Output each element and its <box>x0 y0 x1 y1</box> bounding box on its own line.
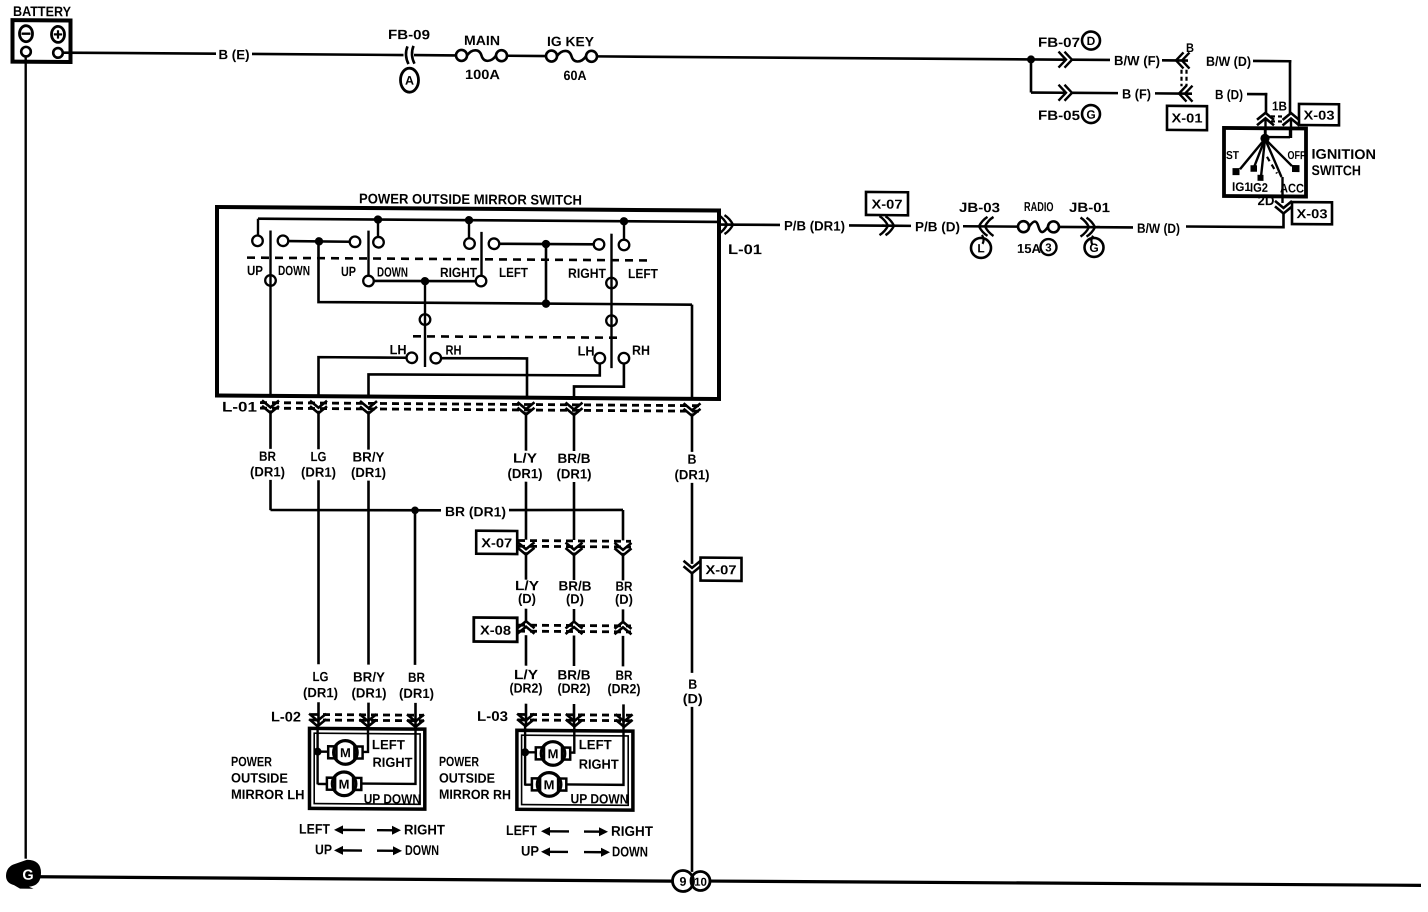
contact pair wire B <box>489 238 500 249</box>
node junction top <box>1027 55 1035 63</box>
label box X-03 bottom <box>1292 202 1332 224</box>
wire ground bus right <box>710 880 1421 886</box>
connector ref circle A <box>401 68 419 92</box>
selector contact RH2 <box>619 353 630 364</box>
wire 2D down and left B/W(D) <box>1186 213 1284 227</box>
wire BR/Y to L-02 <box>367 703 370 727</box>
svg-text:(DR1): (DR1) <box>508 466 543 481</box>
svg-text:LEFT: LEFT <box>579 737 613 752</box>
svg-text:(DR1): (DR1) <box>351 465 386 480</box>
svg-text:UP: UP <box>247 263 263 278</box>
wire BR vertical to branch <box>269 480 272 510</box>
contact stem 4 <box>623 221 625 239</box>
node bus dot 2 <box>465 216 473 224</box>
contact stem UP1 <box>257 219 259 236</box>
svg-text:BR: BR <box>408 670 425 685</box>
svg-text:X-07: X-07 <box>872 196 903 211</box>
wire LG down <box>317 480 320 664</box>
wire radio fuse to JB-01 <box>1059 226 1100 229</box>
svg-text:60A: 60A <box>564 68 587 83</box>
connector X-07 pin BR/B <box>566 548 583 555</box>
svg-text:(D): (D) <box>566 591 584 606</box>
power outside mirror switch box <box>217 207 719 399</box>
svg-text:UP: UP <box>315 841 332 857</box>
node selector tap dot <box>421 277 429 285</box>
svg-text:POWER: POWER <box>439 754 479 769</box>
wire BR below X-07 <box>622 553 625 581</box>
selector contact LH1 <box>407 352 418 363</box>
svg-text:B: B <box>1186 41 1194 55</box>
wire L/Y below X-07 <box>525 552 528 580</box>
svg-text:(D): (D) <box>518 591 536 606</box>
node ground joint 9 <box>673 870 694 891</box>
wire IG KEY to junction <box>597 56 1031 59</box>
svg-text:LEFT: LEFT <box>499 265 529 280</box>
connector X-07 pin BR <box>615 548 632 555</box>
wire BR/B to L-03 <box>573 704 576 726</box>
svg-text:L-01: L-01 <box>222 398 257 414</box>
svg-text:DOWN: DOWN <box>405 842 439 858</box>
svg-text:UP: UP <box>341 264 356 279</box>
svg-text:G: G <box>1086 108 1095 122</box>
ignition switch contact IG2 <box>1261 139 1265 177</box>
svg-text:RIGHT: RIGHT <box>373 755 414 770</box>
svg-text:G: G <box>22 868 33 884</box>
svg-text:B: B <box>688 677 697 692</box>
wire L/Y mid <box>525 482 528 540</box>
wire L/Y to motor1 RH <box>525 751 536 753</box>
wire L/Y to X-08 <box>525 609 528 621</box>
wire B(D) to corner <box>1247 93 1267 96</box>
power outside mirror LH box <box>310 728 425 809</box>
wire L/Y to L-03 <box>525 704 528 726</box>
wire battery negative to ground bus <box>25 57 27 859</box>
wire MAIN to IG KEY fuse <box>507 54 546 57</box>
svg-text:RIGHT: RIGHT <box>568 266 607 281</box>
node ground joint 10 <box>691 871 710 890</box>
wire B drop <box>691 413 694 452</box>
power outside mirror RH box <box>517 730 633 810</box>
svg-text:(DR2): (DR2) <box>608 681 641 696</box>
svg-text:(DR1): (DR1) <box>250 464 285 479</box>
svg-text:DOWN: DOWN <box>612 843 648 859</box>
svg-text:OFF: OFF <box>1288 150 1306 162</box>
svg-text:(DR1): (DR1) <box>303 685 338 700</box>
wire BR to L-02 <box>414 703 417 727</box>
svg-text:ST: ST <box>1226 150 1239 162</box>
motor RH left/right <box>536 747 544 759</box>
svg-text:IG KEY: IG KEY <box>547 34 594 49</box>
svg-text:MAIN: MAIN <box>464 33 500 48</box>
label box X-01 <box>1167 106 1207 130</box>
wire BR/Y into motor1 LH <box>363 725 369 752</box>
wire BR below X-08 <box>622 636 625 667</box>
wire FB-05 to B(F) <box>1072 92 1118 95</box>
wire BR into motor2 RH <box>566 724 623 785</box>
svg-text:A: A <box>405 74 414 88</box>
wire LG to motor2 LH <box>318 783 327 785</box>
svg-text:RH: RH <box>446 343 462 358</box>
wire BR drop <box>269 410 272 449</box>
wire LG to motor1 LH <box>318 750 329 752</box>
connector L-02 pin LG <box>309 719 326 726</box>
svg-text:POWER OUTSIDE MIRROR SWITCH: POWER OUTSIDE MIRROR SWITCH <box>359 190 582 208</box>
wire B below X-07 <box>691 572 694 673</box>
wire BR branch down RH <box>622 510 625 540</box>
connector L-03 pin L/Y <box>517 719 534 726</box>
svg-text:M: M <box>339 777 350 792</box>
wire crossbar down right <box>691 305 694 399</box>
svg-text:D: D <box>1087 34 1096 48</box>
wire L-01 out to label <box>737 223 780 226</box>
connector X-07 row <box>476 531 517 554</box>
node contact wire B dot <box>542 240 550 248</box>
wire junction to FB-05 <box>1031 91 1065 94</box>
svg-text:BR/B: BR/B <box>558 451 591 466</box>
svg-text:(DR2): (DR2) <box>558 681 591 696</box>
connector L-01 pin B <box>684 409 701 416</box>
wire B to ground joints <box>691 707 694 872</box>
svg-text:B/W (F): B/W (F) <box>1114 53 1160 68</box>
svg-text:UP DOWN: UP DOWN <box>364 791 421 806</box>
connector X-08 pin BR/B <box>566 621 583 628</box>
label box X-03 top <box>1299 104 1339 125</box>
svg-text:LH: LH <box>578 344 595 359</box>
svg-text:L-01: L-01 <box>728 241 762 257</box>
svg-text:B (F): B (F) <box>1122 86 1151 101</box>
contact stem 3 <box>468 220 470 238</box>
svg-text:P/B (DR1): P/B (DR1) <box>784 218 845 233</box>
connector X-07 inline <box>866 192 908 215</box>
wire BR branch down LH <box>414 510 417 665</box>
svg-text:M: M <box>548 746 559 761</box>
svg-text:LEFT: LEFT <box>628 266 659 281</box>
wire B(F) to X-01 connector <box>1155 92 1192 95</box>
svg-text:IG1: IG1 <box>1232 180 1251 194</box>
svg-text:B: B <box>688 452 697 467</box>
svg-text:(DR1): (DR1) <box>675 467 710 482</box>
wire BR/Y drop <box>367 411 370 450</box>
ignition switch contact IG1 <box>1254 139 1265 168</box>
svg-text:B (D): B (D) <box>1215 87 1243 102</box>
connector X-08 pin L/Y <box>518 621 535 628</box>
svg-text:15A: 15A <box>1017 241 1042 256</box>
contact pair wire A <box>278 235 289 246</box>
svg-text:RADIO: RADIO <box>1024 199 1054 214</box>
node LG tap dot LH <box>314 748 322 756</box>
svg-text:B/W (D): B/W (D) <box>1206 54 1251 69</box>
wire LH1 left down <box>319 357 407 397</box>
wire BR/B drop <box>573 413 576 452</box>
wire X-07 to P/B(D) <box>882 224 911 227</box>
wire RH1 right down <box>441 358 527 398</box>
wire JB-03 to radio fuse <box>963 225 1018 228</box>
svg-text:2D: 2D <box>1258 193 1275 208</box>
svg-text:(DR1): (DR1) <box>557 466 592 481</box>
wire internal crossbar <box>319 241 693 304</box>
svg-text:OUTSIDE: OUTSIDE <box>231 770 288 785</box>
svg-text:B/W (D): B/W (D) <box>1137 221 1180 236</box>
svg-text:L-03: L-03 <box>477 708 508 724</box>
wire BR/B mid <box>573 482 576 540</box>
svg-text:BR/Y: BR/Y <box>353 669 385 684</box>
wire BR to X-08 <box>622 609 625 621</box>
mech link dashed row 1 <box>247 258 652 261</box>
svg-text:BR (DR1): BR (DR1) <box>445 504 506 519</box>
connector L-02 pin BR <box>407 720 424 727</box>
wire junction to FB-07 <box>1031 58 1065 61</box>
svg-text:M: M <box>544 777 555 792</box>
connector X-01 inline <box>1179 86 1187 102</box>
wire 1B pins into ignition switch <box>1264 120 1266 138</box>
svg-text:LG: LG <box>313 669 329 684</box>
svg-text:X-03: X-03 <box>1304 108 1335 123</box>
wire L/Y inside RH box <box>524 724 526 786</box>
wire BR into motor2 LH <box>362 725 415 784</box>
wire battery positive B(E) segment 1 <box>63 53 216 54</box>
svg-text:MIRROR LH: MIRROR LH <box>231 787 305 803</box>
svg-text:L/Y: L/Y <box>513 451 537 466</box>
mech link dashed row 2 <box>413 336 622 337</box>
ground G symbol <box>6 860 41 889</box>
switch pole UP/DOWN right <box>367 231 369 276</box>
svg-text:3: 3 <box>1045 242 1051 254</box>
contact stem 2 <box>377 220 379 237</box>
switch bus wire <box>258 219 719 222</box>
wire FB-07 to B/W(F) <box>1072 58 1110 61</box>
svg-text:SWITCH: SWITCH <box>1312 162 1362 178</box>
wire BR/B into motor1 RH <box>570 724 574 753</box>
svg-text:10: 10 <box>694 877 707 889</box>
svg-text:RIGHT: RIGHT <box>440 265 478 280</box>
wire L/Y below X-08 <box>525 635 528 666</box>
selector contact RH1 <box>431 353 442 364</box>
svg-text:FB-09: FB-09 <box>388 27 430 42</box>
connector X-07 pin B <box>684 566 701 573</box>
ignition switch contact OFF <box>1265 139 1292 166</box>
connector L-03 pin BR <box>616 720 633 727</box>
wire L/Y drop <box>525 412 528 451</box>
wire LG drop <box>317 411 320 450</box>
wire contactB tap down <box>545 244 548 304</box>
connector L-01 pin BR <box>262 406 279 413</box>
svg-text:RIGHT: RIGHT <box>611 823 653 839</box>
motor LH left/right <box>328 746 336 758</box>
svg-text:FB-07: FB-07 <box>1038 35 1080 50</box>
svg-text:BR/Y: BR/Y <box>353 449 385 464</box>
wire FB-09 to MAIN fuse <box>414 54 456 57</box>
switch pole RIGHT/LEFT left <box>480 232 482 276</box>
svg-text:DOWN: DOWN <box>278 263 310 278</box>
svg-text:(D): (D) <box>683 691 703 706</box>
svg-text:P/B (D): P/B (D) <box>915 219 960 234</box>
svg-text:X-08: X-08 <box>480 623 511 638</box>
svg-text:9: 9 <box>680 875 687 889</box>
wire BR/B below X-08 <box>573 636 576 667</box>
svg-text:LH: LH <box>390 342 407 357</box>
wire JB-01 to B/W(D) label <box>1097 226 1133 229</box>
svg-text:L-02: L-02 <box>271 708 301 724</box>
wire BR/Y down <box>367 481 370 665</box>
svg-text:LG: LG <box>311 449 327 464</box>
connector L-01 pin out <box>725 215 734 234</box>
selector pole left <box>424 281 426 367</box>
svg-text:DOWN: DOWN <box>377 265 408 280</box>
connector X-08 row <box>474 618 517 642</box>
node junction drop <box>1030 59 1033 92</box>
svg-text:POWER: POWER <box>231 754 272 769</box>
connector L-01 pin BR/Y <box>360 407 377 414</box>
svg-text:LEFT: LEFT <box>299 821 330 837</box>
svg-text:LEFT: LEFT <box>372 737 406 752</box>
connector L-01 pin L/Y <box>518 408 535 415</box>
svg-text:RIGHT: RIGHT <box>579 757 620 772</box>
wire B/W(D) to corner <box>1253 60 1291 63</box>
motor RH up/down <box>532 778 540 790</box>
wire LG inside LH box <box>316 724 318 784</box>
ignition switch rotor dashed <box>1267 157 1277 174</box>
svg-text:M: M <box>340 745 351 760</box>
svg-text:BATTERY: BATTERY <box>13 3 72 19</box>
wire down to 1B left <box>1265 93 1268 114</box>
wire down to 1B right <box>1289 60 1292 113</box>
ignition switch internal node <box>1264 128 1266 137</box>
svg-text:UP: UP <box>521 843 539 859</box>
wire BR branch left part <box>271 509 442 511</box>
svg-text:X-03: X-03 <box>1297 206 1328 221</box>
svg-text:1B: 1B <box>1272 98 1287 113</box>
svg-text:OUTSIDE: OUTSIDE <box>439 770 495 785</box>
svg-text:X-07: X-07 <box>481 535 512 550</box>
wire BR/B to X-08 <box>573 609 576 621</box>
svg-text:LEFT: LEFT <box>506 822 537 838</box>
svg-text:UP DOWN: UP DOWN <box>571 791 629 806</box>
motor LH up/down <box>327 778 335 790</box>
node contact wire A dot <box>315 237 323 245</box>
wire LG to L-02 <box>317 702 320 726</box>
node L/Y tap dot RH <box>521 748 529 756</box>
wire BR branch right part <box>509 509 623 511</box>
svg-text:100A: 100A <box>465 67 500 82</box>
wire P/B(DR1) to X-07 <box>849 224 884 227</box>
ignition switch contact ST <box>1240 139 1265 170</box>
connector L-01 pin BR/B <box>566 408 583 415</box>
switch pole UP/DOWN left <box>269 230 271 395</box>
node bus dot 3 <box>620 217 628 225</box>
svg-text:JB-01: JB-01 <box>1069 200 1111 215</box>
wire pole2 to selector pole <box>374 281 476 282</box>
connector L-03 pin BR/B <box>566 719 583 726</box>
wire ground bus left <box>40 877 672 882</box>
svg-text:X-01: X-01 <box>1172 110 1203 125</box>
ignition switch contact ACC <box>1265 139 1282 177</box>
svg-text:L: L <box>977 241 984 255</box>
svg-text:(D): (D) <box>615 592 633 607</box>
svg-text:(DR1): (DR1) <box>352 685 387 700</box>
svg-text:RH: RH <box>632 343 650 358</box>
svg-text:FB-05: FB-05 <box>1038 108 1081 123</box>
node crossbar dot <box>542 299 550 307</box>
wire L/Y to motor2 RH <box>525 783 532 785</box>
connector X-08 pin BR <box>615 622 632 629</box>
svg-text:JB-03: JB-03 <box>959 200 1001 215</box>
svg-text:MIRROR RH: MIRROR RH <box>439 787 511 803</box>
svg-text:X-07: X-07 <box>706 562 737 577</box>
svg-text:(DR2): (DR2) <box>510 681 543 696</box>
wire BR to L-03 <box>622 704 625 726</box>
svg-text:IGNITION: IGNITION <box>1312 146 1377 162</box>
wire switch box to L-01 pin <box>719 223 737 226</box>
switch pole RIGHT/LEFT right <box>610 234 612 368</box>
ignition switch box <box>1224 128 1306 197</box>
wire B/W(F) to connector B <box>1162 59 1188 62</box>
selector contact LH2 <box>595 353 606 364</box>
svg-text:BR: BR <box>259 449 276 464</box>
wire B between X-07 <box>691 483 694 564</box>
wire ACC down through box <box>1281 177 1283 203</box>
connector X-07 pin L/Y <box>518 548 535 555</box>
connector L-01 pin LG <box>310 406 327 413</box>
wire B(E) segment 2 <box>252 54 404 55</box>
connector L-02 pin BR/Y <box>360 720 377 727</box>
node bus dot 1 <box>374 215 382 223</box>
svg-text:B (E): B (E) <box>219 47 250 62</box>
wire LH2 down left down <box>369 362 600 398</box>
svg-text:G: G <box>1089 241 1098 255</box>
wire RH2 down left down <box>574 363 624 398</box>
svg-text:(DR1): (DR1) <box>399 686 434 701</box>
svg-text:(DR1): (DR1) <box>301 465 336 480</box>
wire BR/B below X-07 <box>573 553 576 581</box>
svg-text:RIGHT: RIGHT <box>404 821 445 837</box>
node BR branch dot <box>411 506 419 514</box>
